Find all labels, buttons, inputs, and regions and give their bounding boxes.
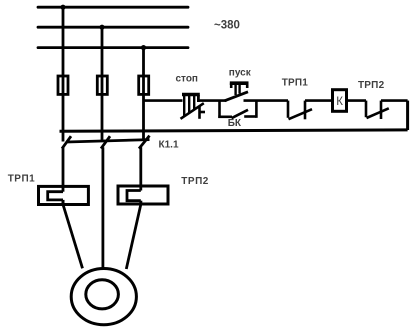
contact К1.1 pole 1 <box>62 136 71 148</box>
wire пуск to ТРП1 <box>244 99 289 102</box>
contact ТРП2 (NC) <box>366 101 389 119</box>
svg-text:К1.1: К1.1 <box>159 139 179 150</box>
wire phase 3 drop <box>142 48 145 141</box>
bus line L1 <box>38 6 188 9</box>
wire стоп to пуск <box>198 99 226 102</box>
svg-text:К: К <box>336 96 343 108</box>
node junction L1 <box>60 5 65 10</box>
wire ТРП2 out <box>139 201 142 206</box>
motor M inner <box>86 280 119 309</box>
wire to motor right <box>126 205 141 270</box>
svg-text:ТРП2: ТРП2 <box>358 80 385 91</box>
heater ТРП1 loop <box>48 192 63 200</box>
svg-text:ТРП1: ТРП1 <box>8 173 36 184</box>
contact К1.1 pole 2 <box>101 136 110 148</box>
wire phase 2 drop <box>101 27 104 141</box>
node junction L3 <box>141 45 146 50</box>
wire phase 1 drop <box>62 7 65 141</box>
wire to motor left <box>63 205 83 269</box>
svg-text:пуск: пуск <box>229 68 252 79</box>
svg-text:ТРП2: ТРП2 <box>181 176 209 187</box>
wire ТРП1 out <box>62 200 65 206</box>
svg-text:БК: БК <box>228 118 242 129</box>
fuse F2 <box>97 76 107 94</box>
wire phase 1 lower <box>62 147 65 192</box>
node junction L2 <box>99 25 104 30</box>
heater ТРП2 outer box <box>118 186 168 204</box>
wire coil to ТРП2 <box>347 99 367 102</box>
heater ТРП2 loop <box>127 191 141 201</box>
contact К1.1 pole 3 <box>139 136 150 149</box>
svg-text:ТРП1: ТРП1 <box>282 78 309 89</box>
svg-text:~380: ~380 <box>214 20 240 32</box>
bus line L2 <box>38 26 188 29</box>
contact К1.1 linkage <box>67 140 150 142</box>
wire ТРП2 to right edge <box>381 99 408 102</box>
heater ТРП1 outer box <box>39 186 89 204</box>
pushbutton SB1 стоп (NC) <box>181 95 206 119</box>
wire control feed <box>144 99 183 102</box>
wire right edge down <box>406 101 409 130</box>
fuse F1 <box>58 76 68 94</box>
motor M outer <box>71 269 136 325</box>
contact ТРП1 (NC) <box>288 101 312 120</box>
wire phase 3 lower <box>139 147 142 190</box>
wire ТРП1 to coil <box>305 99 333 102</box>
fuse F3 <box>139 76 149 94</box>
wire control return <box>60 130 408 131</box>
pushbutton SB2 пуск (NO) <box>225 83 249 101</box>
coil К (contactor) <box>333 90 347 112</box>
bus line L3 <box>38 46 188 49</box>
contact БК branch <box>218 101 256 119</box>
svg-text:стоп: стоп <box>176 73 198 84</box>
wire phase 2 lower <box>102 147 105 269</box>
